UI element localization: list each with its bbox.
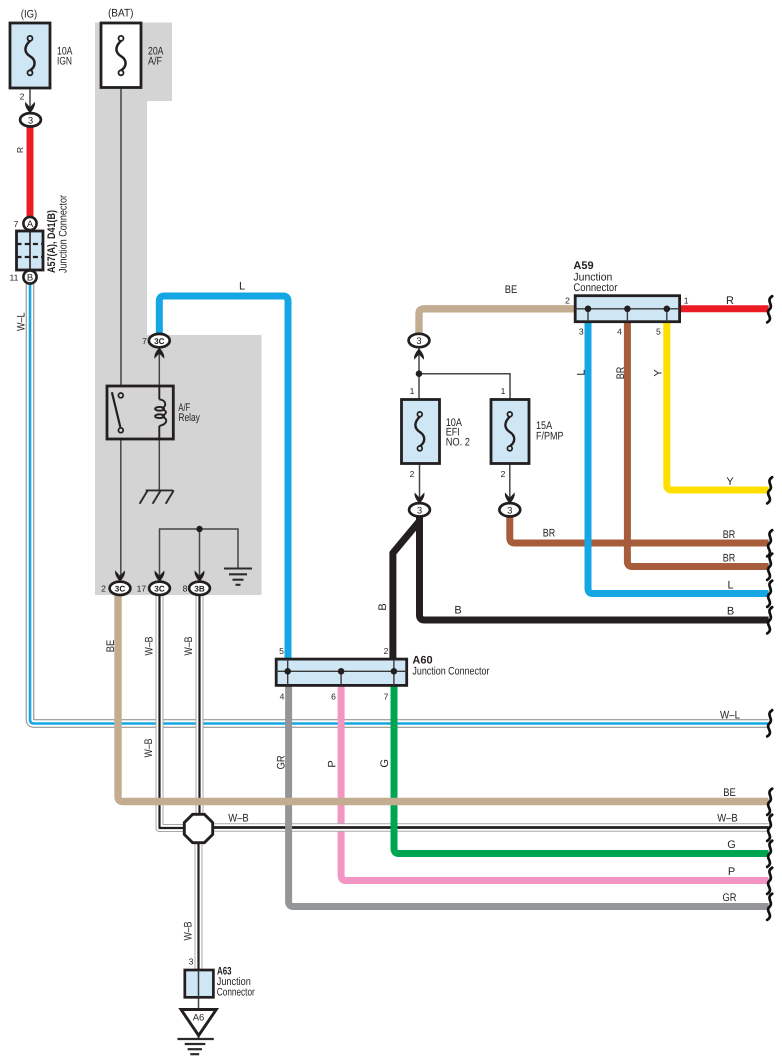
svg-text:BR: BR xyxy=(543,528,556,540)
earth ground bars at A6 xyxy=(177,1039,213,1054)
junction dot fuse feed node xyxy=(416,370,423,377)
arrow up into oval 3 (BE feed) xyxy=(414,349,424,360)
oval 7-3C at relay coil xyxy=(149,334,170,347)
svg-text:W–B: W–B xyxy=(143,739,155,758)
svg-text:A57(A), D41(B): A57(A), D41(B) xyxy=(46,210,58,273)
oval 8-3B xyxy=(189,582,210,595)
wire BR from A59 pin 4 to right edge (second brown horizontal) xyxy=(627,318,768,567)
relay switch xyxy=(112,392,123,432)
svg-text:W–B: W–B xyxy=(183,922,195,941)
break curl wire Y xyxy=(767,477,772,503)
oval 3 below F/PMP fuse xyxy=(499,503,520,516)
thin wire IG fuse to arrow/oval 3 xyxy=(29,88,31,107)
thin wire oval 3 to fuse node xyxy=(418,344,420,400)
junction connector A59 box xyxy=(575,296,679,322)
fuse EFI NO.2 box xyxy=(402,400,440,464)
svg-text:A: A xyxy=(27,219,34,230)
wire B from EFI oval 3 down and right to right edge xyxy=(420,515,769,620)
break curl wire BR 2 xyxy=(767,554,772,580)
relay coil xyxy=(155,386,166,439)
svg-text:BR: BR xyxy=(723,529,736,541)
wire Y from A59 pin 5 to right edge xyxy=(667,318,769,490)
svg-text:W–B: W–B xyxy=(144,637,156,656)
svg-text:B: B xyxy=(727,606,734,618)
svg-text:3: 3 xyxy=(189,957,194,967)
svg-text:2: 2 xyxy=(20,92,25,102)
break curl wire BE xyxy=(767,789,772,815)
svg-text:2: 2 xyxy=(101,584,106,594)
svg-text:P: P xyxy=(327,760,339,767)
break curl wire BR 1 xyxy=(767,530,772,556)
svg-text:2: 2 xyxy=(410,469,415,479)
svg-text:Connector: Connector xyxy=(573,282,617,294)
svg-text:Relay: Relay xyxy=(178,412,200,424)
oval 17-3C xyxy=(149,582,170,595)
svg-text:W–L: W–L xyxy=(16,313,28,332)
svg-text:Junction Connector: Junction Connector xyxy=(58,195,70,273)
junction dot ground bus xyxy=(196,526,202,532)
junction connector A63 box xyxy=(185,970,214,997)
svg-text:A/F: A/F xyxy=(148,55,162,67)
fuse IG box xyxy=(10,23,50,88)
svg-text:A59: A59 xyxy=(573,260,593,272)
svg-text:GR: GR xyxy=(723,892,737,904)
svg-text:7: 7 xyxy=(14,219,19,229)
oval 3 below EFI fuse xyxy=(409,503,430,516)
thin wire relay coil to chassis ground xyxy=(158,439,160,490)
arrow up into oval 7-3C xyxy=(154,348,164,359)
connector circle A xyxy=(23,217,36,230)
svg-text:B: B xyxy=(27,273,33,284)
wire W-B from oval 8-3B down to splice (right vertical) xyxy=(196,594,204,816)
wire P from A60 pin 6 down and right to right edge xyxy=(341,683,768,881)
svg-text:3: 3 xyxy=(28,115,33,126)
thin wire BAT fuse down to relay xyxy=(120,87,122,386)
fuse BAT box xyxy=(101,23,141,88)
svg-text:1: 1 xyxy=(410,386,415,396)
svg-text:L: L xyxy=(727,580,733,592)
svg-text:(IG): (IG) xyxy=(21,9,38,21)
wire W-B from splice down to A63 xyxy=(195,840,203,972)
thin wire A63 to ground A6 xyxy=(198,972,200,1010)
svg-text:2: 2 xyxy=(501,469,506,479)
svg-text:BR: BR xyxy=(723,553,736,565)
wire W-B from splice to right edge xyxy=(211,823,769,832)
svg-text:Connector: Connector xyxy=(217,986,255,998)
wire BE from oval 3 up and across to A59 pin 2 xyxy=(419,309,576,333)
arrow down into oval 8-3B xyxy=(195,570,205,581)
svg-text:BR: BR xyxy=(615,367,627,380)
svg-text:5: 5 xyxy=(279,646,284,656)
thin wire relay switch to oval 2-3C xyxy=(120,439,122,578)
wire B branch diagonal down to A60 pin 2 xyxy=(393,521,420,662)
svg-text:1: 1 xyxy=(501,386,506,396)
svg-text:F/PMP: F/PMP xyxy=(536,431,564,443)
svg-text:BE: BE xyxy=(723,787,736,799)
ground triangle A6 xyxy=(181,1010,216,1036)
svg-text:GR: GR xyxy=(276,755,288,769)
svg-text:W–B: W–B xyxy=(228,813,249,825)
wire R from A59 pin 1 to right edge xyxy=(678,305,769,312)
fuse F/PMP box xyxy=(491,400,529,464)
break curl wire G xyxy=(767,841,772,867)
svg-text:W–B: W–B xyxy=(183,637,195,656)
arrow down into oval 3 (IG) xyxy=(25,102,35,113)
wire W-B from oval 17-3C down to splice (left vertical) xyxy=(160,594,187,828)
svg-text:2: 2 xyxy=(384,646,389,656)
svg-text:6: 6 xyxy=(331,692,336,702)
svg-text:7: 7 xyxy=(142,336,147,346)
svg-text:3: 3 xyxy=(579,327,584,337)
svg-text:2: 2 xyxy=(565,296,570,306)
thin wire EFI fuse to oval 3 xyxy=(419,463,421,500)
arrow down into oval 3 (F/PMP out) xyxy=(505,492,515,503)
break curl wire P xyxy=(767,868,772,894)
svg-text:W–L: W–L xyxy=(720,710,740,722)
svg-text:3C: 3C xyxy=(154,585,165,594)
svg-text:A60: A60 xyxy=(412,654,432,666)
svg-text:B: B xyxy=(377,603,389,610)
break curl wire R xyxy=(767,296,772,322)
earth ground symbol in relay box area xyxy=(224,569,252,585)
break curl wire W-B xyxy=(767,815,772,841)
connector circle B xyxy=(23,270,36,283)
break curl wire L xyxy=(767,581,772,607)
svg-text:3C: 3C xyxy=(154,337,165,346)
svg-text:3C: 3C xyxy=(115,585,126,594)
chassis ground symbol xyxy=(140,490,174,503)
oval 3 above fuses xyxy=(409,334,430,347)
svg-text:3B: 3B xyxy=(194,585,205,594)
svg-text:L: L xyxy=(576,369,588,375)
svg-text:NO. 2: NO. 2 xyxy=(446,437,470,449)
svg-text:Y: Y xyxy=(653,369,665,377)
svg-text:3: 3 xyxy=(417,505,422,516)
svg-text:BE: BE xyxy=(105,640,117,653)
wire L from A59 pin 3 to right edge xyxy=(588,318,769,594)
arrow down into oval 17-3C xyxy=(155,570,165,581)
wire W-L (white/blue) from connector B down and across to right edge xyxy=(30,284,769,724)
svg-text:A6: A6 xyxy=(193,1013,205,1024)
junction connector A57(A) D41(B) grid box xyxy=(17,231,44,270)
svg-text:17: 17 xyxy=(137,584,147,594)
svg-text:L: L xyxy=(239,281,245,293)
svg-text:B: B xyxy=(454,605,461,617)
svg-text:Junction Connector: Junction Connector xyxy=(412,666,489,678)
splice octagon W-B xyxy=(184,814,212,842)
svg-text:3: 3 xyxy=(416,336,421,347)
svg-text:G: G xyxy=(379,759,391,768)
wire BR from F/PMP fuse to right edge (first brown horizontal) xyxy=(510,515,769,543)
svg-text:11: 11 xyxy=(9,273,18,283)
svg-text:R: R xyxy=(726,295,734,307)
thin wire F/PMP fuse to oval 3 xyxy=(509,463,511,500)
svg-text:4: 4 xyxy=(280,692,285,702)
svg-text:8: 8 xyxy=(183,584,188,594)
svg-text:4: 4 xyxy=(617,327,622,337)
arrow down into oval 3 (EFI out) xyxy=(415,492,425,503)
oval 2-3C below relay xyxy=(110,582,131,595)
thin wire triangle apex to earth bars xyxy=(198,1035,200,1039)
svg-text:Y: Y xyxy=(726,476,734,488)
wire R from IG oval 3 down to junction connector A xyxy=(27,124,34,217)
wire GR from A60 pin 4 down and right to right edge xyxy=(289,683,769,907)
thin wire node to F/PMP fuse xyxy=(419,374,510,400)
svg-text:W–B: W–B xyxy=(717,813,738,825)
gray harness background region xyxy=(95,23,262,596)
svg-text:R: R xyxy=(15,147,25,153)
svg-text:1: 1 xyxy=(684,296,689,306)
wire G from A60 pin 7 down and right to right edge xyxy=(394,683,769,854)
svg-text:3: 3 xyxy=(507,505,512,516)
thin wire oval 7-3C to relay coil xyxy=(158,347,160,386)
break curl wire W-L xyxy=(767,710,772,736)
break curl wire GR xyxy=(767,894,772,920)
thin wire ground bus to ovals 17-3C and 8-3B xyxy=(160,529,239,578)
svg-text:BE: BE xyxy=(505,284,518,296)
wire L from relay oval 7-3C up, across and down to A60 pin 5 xyxy=(159,296,288,662)
svg-text:5: 5 xyxy=(656,327,661,337)
svg-text:7: 7 xyxy=(384,692,389,702)
svg-text:IGN: IGN xyxy=(57,55,72,67)
break curl wire B xyxy=(767,607,772,633)
junction connector A60 box xyxy=(276,659,407,685)
svg-text:(BAT): (BAT) xyxy=(108,8,134,20)
wire BE from relay oval 2-3C down and right to right edge xyxy=(118,594,769,802)
oval 3 (IG output) xyxy=(20,113,41,126)
arrow down into oval 2-3C xyxy=(115,570,125,581)
svg-text:G: G xyxy=(727,839,736,851)
relay A/F box xyxy=(107,386,173,439)
svg-text:P: P xyxy=(728,866,735,878)
